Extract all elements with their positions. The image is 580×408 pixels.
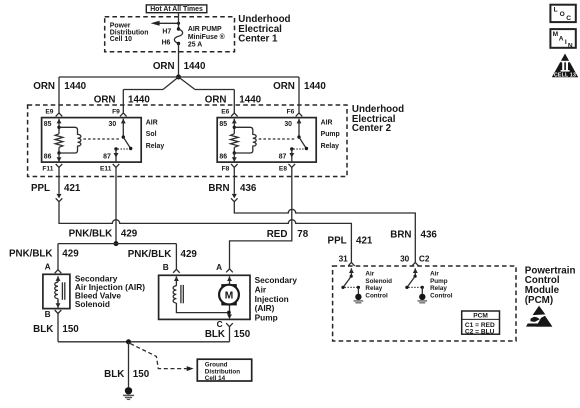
svg-text:C2 = BLU: C2 = BLU [465,328,495,335]
connector PCM pin 31 [348,262,355,273]
underhood electrical center 1 dashed box [105,17,235,52]
wire drop to F9 [122,90,124,113]
svg-text:Control: Control [430,292,453,299]
svg-text:F6: F6 [287,109,295,116]
relay U2 switch [290,119,308,151]
svg-text:150: 150 [234,329,251,340]
pump pin C wire with arrow [227,314,232,319]
wire drop to F6 [298,77,300,113]
svg-text:B: B [45,309,51,319]
connector F8 [231,164,238,168]
svg-text:25 A: 25 A [188,42,202,49]
ESD sensitive symbol [526,306,552,327]
relay U2 pin 86 wire with arrow [232,153,237,162]
wire drop to E6 [233,90,235,113]
label ORN 1440 row2 right [205,95,262,106]
label RED 78 [267,229,309,240]
svg-text:L: L [554,7,558,14]
power feed label Hot At All Times [146,5,207,13]
connector pump pin C [226,323,233,327]
connector E11 [113,164,120,168]
relay U1 pin 86 wire with arrow [57,153,62,162]
svg-text:ORN: ORN [33,81,55,92]
svg-text:(PCM): (PCM) [525,295,553,306]
label BRN 436 left [208,183,257,194]
wire BLK ground bus [58,341,230,343]
svg-text:31: 31 [339,254,349,264]
svg-text:150: 150 [62,324,79,335]
svg-text:Relay: Relay [365,285,382,292]
cell reference triangle II [552,54,578,79]
relay U2 AIR Pump Relay box [217,118,316,163]
svg-text:86: 86 [44,154,52,161]
inline connector on PPL wire [56,194,63,202]
svg-text:421: 421 [64,183,81,194]
connector E6 [231,113,238,124]
wire BLK 150 to ground [128,342,130,387]
connector E8 [289,164,296,168]
svg-text:CELL 13: CELL 13 [554,73,576,79]
svg-text:N: N [568,42,573,49]
PCM connector legend box [462,311,500,335]
wire BRN 436 from F8 [233,167,235,193]
svg-text:A: A [216,262,222,272]
svg-text:Air: Air [430,271,439,278]
relay U1 pin 87 wire with arrow [114,149,119,162]
svg-text:Power: Power [110,22,131,29]
svg-text:BLK: BLK [205,329,225,340]
label ORN 1440 (fuse output) [153,61,206,72]
svg-text:Pump: Pump [430,278,448,285]
inline connector on BRN wire [231,194,238,202]
ground distribution cell 14 reference box [197,359,251,382]
solenoid coil [55,276,65,303]
connector E9 [56,113,63,124]
connector solenoid pin A [55,270,62,281]
svg-text:O: O [560,11,565,18]
svg-text:F11: F11 [42,166,53,173]
svg-text:Cell 14: Cell 14 [205,375,226,382]
label PNK/BLK 429 left branch [9,249,79,260]
svg-text:I: I [565,39,567,46]
svg-text:M: M [553,31,559,38]
svg-text:1440: 1440 [64,81,86,92]
svg-text:BRN: BRN [390,229,411,240]
relay U2 actuation dashed line [259,138,296,140]
connector pump pin B [173,269,180,281]
svg-text:Sol: Sol [146,131,157,138]
svg-text:ORN: ORN [205,95,227,106]
svg-text:421: 421 [356,235,373,246]
svg-text:C2: C2 [419,254,430,264]
svg-text:Pump: Pump [255,312,278,322]
label ORN 1440 row2 left [94,95,151,106]
svg-text:Cell 10: Cell 10 [110,36,132,43]
svg-text:PNK/BLK: PNK/BLK [69,229,113,240]
svg-text:1440: 1440 [304,81,326,92]
svg-text:F8: F8 [222,166,230,173]
svg-text:429: 429 [62,249,79,260]
wire BRN 436 run to PCM [234,202,415,263]
connector F6 [296,113,303,124]
svg-text:C: C [566,15,571,22]
underhood electrical center 2 dashed box [28,105,347,177]
connector F11 [56,164,63,168]
svg-text:Hot At All Times: Hot At All Times [150,6,203,13]
wire RED 78 from E8 [230,167,292,268]
label BLK 150 solenoid [33,324,79,335]
label PPL 421 left [31,183,81,194]
relay U1 AIR Sol Relay box [42,118,142,163]
wire ORN bus horizontal [59,76,299,78]
label ORN 1440 row1 left [33,81,86,92]
svg-text:86: 86 [219,154,227,161]
svg-text:B: B [163,262,169,272]
wire from Hot At All Times to fuse [178,13,180,29]
wire level2 left horizontal [123,89,163,91]
label BLK 150 ground [104,369,150,380]
svg-text:Control: Control [365,292,388,299]
wire PNK/BLK to solenoid A [57,244,59,270]
svg-text:Solenoid: Solenoid [75,299,110,309]
svg-text:ORN: ORN [94,95,116,106]
label BLK 150 pump [205,329,251,340]
solenoid pin B wire with arrow [56,300,61,308]
svg-text:Relay: Relay [430,285,447,292]
svg-text:Center 1: Center 1 [238,33,278,44]
svg-text:AIR PUMP: AIR PUMP [188,26,222,33]
splice node ORN 1440 [176,75,181,80]
PCM driver air solenoid relay control [341,268,360,294]
svg-text:30: 30 [109,121,117,128]
wire diagonal to left branch [163,77,179,90]
wire BLK 150 from solenoid B [57,314,59,342]
relay U2 coil resistor [231,119,239,155]
connector solenoid pin B [55,310,62,314]
svg-text:BLK: BLK [104,369,124,380]
svg-text:85: 85 [44,121,52,128]
ground symbol in PCM left [354,294,364,303]
svg-text:BRN: BRN [208,183,229,194]
wire level2 right horizontal [195,89,234,91]
wire drop to E9 [58,77,60,113]
solenoid Secondary Air Injection Bleed Valve box [43,274,70,308]
pump solenoid coil [173,276,228,312]
wire PNK/BLK to pump B [175,244,177,270]
svg-text:AIR: AIR [146,119,158,126]
relay U1 switch [114,119,132,151]
pump motor M1 [219,276,239,314]
fuse AIR PUMP MiniFuse 25 A [174,27,182,45]
svg-text:87: 87 [103,154,111,161]
svg-text:ORN: ORN [273,81,295,92]
svg-text:M: M [225,290,234,301]
svg-text:436: 436 [240,183,257,194]
svg-text:F9: F9 [112,109,120,116]
ground symbol in PCM right [418,294,428,303]
svg-text:RED: RED [267,229,288,240]
label PNK/BLK 429 mid branch [128,249,198,260]
arrow to power distribution cell [151,21,180,26]
ground G103 symbol [123,387,134,399]
svg-text:429: 429 [121,229,138,240]
splice node BLK 150 [126,339,131,344]
MAIN symbol box [550,29,575,49]
wire PPL 421 run to PCM [59,202,351,263]
wire BLK 150 from pump C [229,327,231,342]
svg-text:E6: E6 [221,109,229,116]
svg-text:MiniFuse ®: MiniFuse ® [188,33,225,41]
svg-text:C: C [217,319,223,329]
svg-text:150: 150 [133,369,150,380]
svg-text:30: 30 [400,254,410,264]
svg-text:Center 2: Center 2 [352,123,392,134]
svg-text:H7: H7 [162,28,171,35]
svg-text:30: 30 [284,121,292,128]
svg-text:PNK/BLK: PNK/BLK [9,249,53,260]
svg-text:AIR: AIR [321,119,333,126]
relay U1 coil winding [59,127,81,153]
svg-text:PPL: PPL [328,235,347,246]
svg-text:E9: E9 [45,109,53,116]
svg-text:ORN: ORN [153,61,175,72]
svg-text:H6: H6 [162,39,171,46]
svg-text:1440: 1440 [128,95,150,106]
svg-text:A: A [45,261,51,271]
splice node PNK/BLK [114,241,119,246]
svg-text:78: 78 [297,229,308,240]
svg-text:E8: E8 [279,166,287,173]
connector pump pin A [226,269,233,281]
svg-text:Relay: Relay [321,143,340,150]
svg-text:A: A [559,35,564,42]
pump Secondary Air Injection box [159,275,250,319]
label PNK/BLK 429 row1 [69,229,138,240]
svg-text:436: 436 [421,229,438,240]
svg-text:Solenoid: Solenoid [365,278,392,285]
svg-text:Relay: Relay [146,143,165,150]
relay U1 coil resistor [55,119,63,155]
connector F9 [120,113,127,124]
relay U2 pin 87 wire with arrow [289,149,294,162]
label ORN 1440 row1 right [273,81,326,92]
connector PCM pin 30 C2 [412,262,419,273]
svg-text:Air: Air [365,271,374,278]
wire PPL 421 from F11 [58,167,60,193]
PCM driver air pump relay control [405,268,424,294]
label BRN 436 at PCM [390,229,437,240]
relay U2 coil winding [234,127,256,153]
wire PNK/BLK branch horizontal [58,243,176,245]
svg-text:PNK/BLK: PNK/BLK [128,249,172,260]
svg-text:PCM: PCM [473,312,488,319]
wire ORN 1440 from fuse to splice [178,44,180,78]
PCM dashed box [333,266,516,341]
svg-text:1440: 1440 [239,95,261,106]
LOC symbol box [550,5,575,22]
relay U1 actuation dashed line [83,138,119,140]
label PPL 421 at PCM [328,235,373,246]
svg-text:E11: E11 [100,166,112,173]
svg-text:PPL: PPL [31,183,50,194]
svg-text:BLK: BLK [33,324,53,335]
svg-text:1440: 1440 [184,61,206,72]
svg-text:429: 429 [181,249,198,260]
dashed leader to ground distribution [130,344,193,372]
svg-text:87: 87 [279,154,287,161]
svg-text:85: 85 [219,121,227,128]
svg-text:Pump: Pump [321,131,340,138]
wire PNK/BLK 429 from E11 [115,167,117,243]
wire diagonal to right branch [179,77,196,90]
